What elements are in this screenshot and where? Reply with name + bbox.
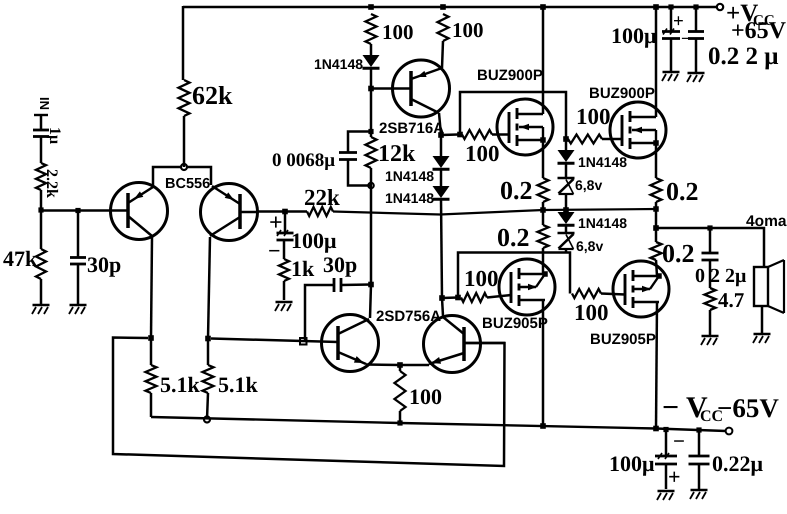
svg-text:IN: IN [37,97,52,110]
node driver emitters junction [397,362,403,368]
svg-text:12k: 12k [378,141,416,167]
wire Q4 emitter to common [366,363,400,366]
resistor R3 47k [36,249,46,279]
transistor Q1 BC556 (left of LTP) [110,183,168,240]
svg-text:1μ: 1μ [46,127,63,144]
capacitor C10 30p [334,278,341,292]
label BUZ905P (M4) [590,331,656,348]
capacitor C1 1u [33,130,49,137]
resistor R9 100 [366,14,377,44]
wire R13 to M2 gate [602,138,622,141]
wire rail to M2 drain [655,7,658,117]
svg-text:1N4148: 1N4148 [578,215,627,231]
node M4 drain rail junction [653,426,659,432]
label 5.1k right [218,372,259,397]
wire lower gate link [458,253,570,298]
label 100 (R13) [576,104,611,129]
label 12k [378,141,416,167]
label 1N4148 (D3) [578,215,627,231]
wire Q3 collector to gate node [441,133,458,136]
wire Q1 collector down [151,237,152,338]
wire speaker tap to R19 [655,228,658,242]
svg-text:BUZ905P: BUZ905P [482,315,548,332]
svg-text:6,8v: 6,8v [575,177,602,193]
label BUZ900P (M1) [477,67,543,84]
wire emitters to R8 [399,365,402,371]
ground under C9 [690,490,708,499]
label 100 (R11) [452,18,484,42]
label 4.7 (R20) [718,288,744,312]
node rail M2 drain junction [653,4,659,10]
node Q2 collector junction [205,336,211,342]
node speaker tap junction [653,225,659,231]
wire M2 source to R17 [655,143,658,178]
svg-text:100: 100 [465,141,500,166]
label 6,8v (ZD2) [576,238,603,254]
node rail C6 junction [693,4,698,9]
label 100 (R15) [574,300,609,325]
capacitor C6 0.22u [688,32,704,39]
svg-text:0.2: 0.2 [666,177,699,206]
ground under C5 [662,72,680,81]
wire ZD1 to output rail [565,194,568,210]
wire C9 to ground [698,464,701,489]
svg-text:47k: 47k [3,246,38,271]
svg-text:100μ: 100μ [291,228,337,253]
svg-text:30p: 30p [323,252,357,277]
capacitor C8 100u [655,453,677,464]
label 4oma [746,213,787,230]
svg-text:100: 100 [576,104,611,129]
label + (C5) [673,11,684,32]
label 1u [46,127,63,144]
node C10 collector tap [368,282,374,288]
wire feedback node to R7 [285,210,307,213]
svg-text:−: − [268,238,281,263]
wire D4 to D5 [440,170,443,187]
node R5 rail junction [204,417,210,423]
label 1N4148 (D4) [385,168,434,184]
node output right junction [653,206,659,212]
resistor R12 100 (M1 gate) [462,130,492,139]
wire M4 drain to -Vcc rail [656,302,657,429]
svg-text:4.7: 4.7 [718,288,744,312]
label 100 (R8) [409,384,442,409]
svg-text:100: 100 [464,266,499,291]
node rail C5 junction [668,4,673,9]
node 12k bottom tap [368,183,374,189]
svg-text:0.2 2 μ: 0.2 2 μ [708,43,778,70]
svg-text:BUZ900P: BUZ900P [477,67,543,84]
wire R1 to input node [40,190,43,210]
wire rail to M1 drain [542,7,545,114]
svg-text:BUZ905P: BUZ905P [590,331,656,348]
svg-text:BUZ900P: BUZ900P [589,85,655,102]
wire Q1 collector to Q5 base (bottom loop) [113,338,505,467]
svg-text:0.2: 0.2 [662,239,695,268]
wire ZD2 to lower gate line [565,249,568,253]
wire rail to C9 [698,430,701,456]
wire D5 down crossing output rail [441,200,442,299]
wire R6 to ground [283,281,286,300]
label - (C8) [673,429,685,453]
wire rail to C8 [665,430,668,457]
mosfet M3 BUZ905P [499,259,555,315]
wire output to speaker line [655,209,658,228]
wire R12 to M1 gate [492,133,509,136]
wire tail to Q1 emitter [153,167,181,186]
resistor R19 0.2 [651,242,662,260]
wire 30p tap down [77,210,80,257]
label 100 (R14) [464,266,499,291]
label 1N4148 (D2) [578,154,627,170]
wire C1 to R1 [40,137,43,164]
capacitor C4 0.0068u (across 12k) [339,132,371,186]
wire 30p to ground [77,264,80,304]
ground under R20 [701,336,719,345]
wire C10 left to Q4 base [305,285,334,340]
resistor R16 0.2 [538,178,549,202]
wire output rail [333,209,656,215]
wire D3 to ZD2 [565,226,568,234]
label 2SD756A [376,308,441,325]
node 12k top tap [368,129,373,134]
label 100 (R9) [382,20,414,44]
svg-text:0 0068μ: 0 0068μ [272,150,335,171]
label 1k [291,256,315,281]
svg-text:2.2k: 2.2k [43,169,60,198]
wire tail to Q2 emitter [187,167,211,185]
node M3 drain rail junction [540,423,546,429]
label IN [37,97,52,110]
node Q3 collector junction [438,132,444,138]
svg-text:BC556: BC556 [165,176,210,192]
wire 47k to ground [40,279,43,304]
svg-text:100μ: 100μ [611,23,657,48]
wire Q2 base to feedback node [258,210,285,213]
wire D1 to VAS base node [370,69,373,88]
diode D5 1N4148 [433,186,450,199]
label 0.22u (C6) [708,43,778,70]
node R14 tap [455,295,461,301]
wire C10 right to Q4 collector [341,283,371,286]
svg-text:100μ: 100μ [609,451,655,476]
node feedback junction [282,209,288,215]
speaker SPK 4ohm [754,260,784,313]
svg-text:+: + [668,464,681,489]
capacitor C5 100u [662,29,680,39]
wire speaker line [656,228,764,267]
resistor R2 62k [179,80,190,116]
wire R5 to -Vcc rail [207,393,208,419]
label 1N4148 (D1) [314,56,363,72]
resistor R7 22k [307,207,333,216]
mosfet M1 BUZ900P [497,99,553,155]
wire R20 to ground [709,310,712,335]
svg-text:5.1k: 5.1k [160,372,201,397]
svg-text:+65V: +65V [731,18,787,44]
diode D3 1N4148 [558,212,575,225]
resistor R20 4.7 [705,288,716,310]
wire C5 to ground [670,39,673,71]
capacitor C3 100u [277,230,294,240]
label 0.22u (C9) [712,451,764,476]
resistor R4 5.1k [146,365,157,393]
wire -Vcc bottom rail [151,417,726,431]
ground under 30p [69,305,87,314]
label BUZ905P (M3) [482,315,548,332]
wire R14 to M3 gate [487,295,511,298]
wire lower gate node to R14 [442,296,458,299]
ground under C6 [687,73,705,82]
zener ZD1 6.8v [558,178,575,194]
terminal -Vcc output [726,428,733,435]
wire zobel tap to C7 [709,228,712,253]
label 62k [192,81,233,110]
wire C3 to R6 [283,240,286,259]
wire M3 drain to -Vcc rail [542,300,545,426]
label BUZ900P (M2) [589,85,655,102]
label 30p [87,252,121,277]
resistor R10 12k [366,137,377,168]
wire Q5 collector up [442,298,443,316]
svg-text:100: 100 [382,20,414,44]
label 1N4148 (D5) [385,190,434,206]
svg-text:1N4148: 1N4148 [578,154,627,170]
node zobel tap [707,225,712,230]
capacitor C7 0.22u [702,253,719,260]
label 30p (C10) [323,252,357,277]
node output left junction [540,207,546,213]
ground under R6 [275,302,293,311]
label - (C5) [681,29,691,48]
wire Q3 collector down [439,113,441,135]
wire R11 to Q3 emitter [442,41,443,68]
svg-text:1N4148: 1N4148 [385,190,434,206]
label 5.1k left [160,372,201,397]
wire feedback node to C3 [284,212,287,233]
resistor R14 100 (M3 gate) [461,293,487,302]
wire R9 to D1 [370,44,373,55]
node rail R9 junction [368,4,374,10]
zener ZD2 6.8v [558,233,575,249]
svg-text:1N4148: 1N4148 [314,56,363,72]
svg-text:100: 100 [452,18,484,42]
node M2 gate-resistor tap [563,136,569,142]
transistor Q5 2SD756A (right driver) [424,316,506,373]
node tail (LTP emitters) [181,164,187,170]
wire Q3 collector to D4 [440,135,443,156]
node lower gate-drive junction [439,295,445,301]
label 0.2 (R19) [662,239,695,268]
wire +Vcc top rail [183,6,717,9]
wire gate tap to D2 [565,139,568,150]
capacitor C9 0.22u [689,456,710,464]
label 2SB716A [379,120,444,137]
wire R4 to -Vcc rail [150,393,153,417]
diode D4 1N4148 [433,156,450,169]
transistor Q2 BC556 (right of LTP) [201,184,259,241]
wire VAS base node down [370,89,373,132]
node rail M1 drain junction [540,4,546,10]
wire output rail to D3 [565,210,568,212]
wire 12k tap to output rail crossing [370,186,373,285]
node 0.22u- rail junction [696,427,701,432]
label 100u (C8) [609,451,655,476]
label 2.2k [43,169,60,198]
svg-text:5.1k: 5.1k [218,372,259,397]
wire input node to Q1 base [41,209,110,212]
label +Vcc [726,0,787,44]
wire rail to C6 [695,7,698,31]
node VAS base [368,86,374,92]
wire 62k to tail node [183,116,186,167]
svg-text:−: − [673,429,685,453]
svg-text:0.2: 0.2 [500,176,533,205]
label 100u (C5) [611,23,657,48]
label 0.2 (R18) [497,223,530,252]
wire 12k bottom [370,168,373,186]
label -Vcc [662,391,779,425]
wire input to C1 [40,115,43,130]
label 22k [304,185,340,210]
svg-text:0.22μ: 0.22μ [712,451,764,476]
svg-text:2SB716A: 2SB716A [379,120,444,137]
wire R17 to output node [655,202,658,209]
wire output node to R18 [542,210,545,225]
label 6,8v (ZD1) [575,177,602,193]
wire R8 to -Vcc rail [399,411,402,423]
wire Q5 emitter to common [400,364,429,367]
label 100u [291,228,337,253]
wire Q2 collector down [208,237,210,339]
wire C6 to ground [695,39,698,73]
wire Q1 collector to R4 [150,338,153,365]
wire C7 to R20 [709,261,712,289]
resistor R17 0.2 [651,178,662,202]
resistor R11 100 [438,14,449,41]
wire R18 to M3 source [542,248,545,274]
mosfet M2 BUZ900P [610,102,666,158]
svg-text:0.2: 0.2 [497,223,530,252]
node Q1 collector junction [148,335,154,341]
node input junction [38,207,43,212]
svg-text:100: 100 [574,300,609,325]
node upper gate-drive junction [457,132,463,138]
ground under speaker [753,334,771,343]
diode D2 1N4148 [558,150,575,163]
svg-text:−65V: −65V [717,393,779,423]
wire input node to 47k [40,210,43,249]
wire 12k top [370,132,373,138]
svg-text:30p: 30p [87,252,121,277]
svg-text:1N4148: 1N4148 [385,168,434,184]
resistor R18 0.2 [538,225,549,248]
transistor Q3 2SB716A [393,60,450,117]
node rail R11 junction [440,4,446,10]
resistor R13 100 (M2 gate) [568,135,602,144]
ground under 47k [32,305,50,314]
capacitor C2 30p [70,258,86,265]
wire Q2 collector to R5 [207,339,210,366]
label 0.0068u [272,150,335,171]
svg-text:100: 100 [409,384,442,409]
wire upper gate node to right side [460,92,566,139]
node 30p compensation tap [300,338,307,345]
diode D1 1N4148 [363,55,380,68]
svg-text:4oma: 4oma [746,213,787,230]
label 0.2 (R16) [500,176,533,205]
node clamp output junction [563,207,569,213]
node R8 rail junction [397,420,402,425]
wire C8 to ground [665,464,668,489]
label 0.2 (R17) [666,177,699,206]
wire M1 source to R16 [542,140,545,178]
label + (C3) [269,210,283,236]
svg-text:1k: 1k [291,256,315,281]
mosfet M4 BUZ905P [613,261,669,317]
wire 62k top [182,6,185,80]
terminal +Vcc output [717,4,723,10]
wire R15 to M4 gate [601,294,625,295]
resistor R5 5.1k [203,365,214,393]
ground under C8 [657,491,675,500]
label BC556 [165,176,210,192]
wire speaker to ground [761,306,764,333]
resistor R1 2.2k [36,163,46,190]
node 100u- rail junction [663,427,668,432]
wire D2 to ZD1 [565,164,568,179]
label 47k [3,246,38,271]
wire R19 to M4 source [656,260,657,276]
wire to Q4 collector [370,285,371,319]
wire node to Q3 base [371,87,411,90]
node 30p tap [75,208,80,213]
resistor R15 100 (M4 gate) [572,289,601,298]
wire rail to C5 [670,7,673,31]
svg-text:62k: 62k [192,81,233,110]
label + (C8) [668,464,681,489]
wire Q2 collector to Q4 base [211,339,338,343]
wire R16 to output node [542,202,545,210]
label 100 (R12) [465,141,500,166]
resistor R6 1k [279,259,289,281]
svg-text:0 2 2μ: 0 2 2μ [695,265,747,287]
label 0.22u (C7) [695,265,747,287]
label - (C3) [268,238,281,263]
svg-text:22k: 22k [304,185,340,210]
node input terminal [34,114,48,116]
transistor Q4 2SD756A (left driver) [322,315,379,372]
svg-text:6,8v: 6,8v [576,238,603,254]
resistor R8 100 [395,371,406,411]
